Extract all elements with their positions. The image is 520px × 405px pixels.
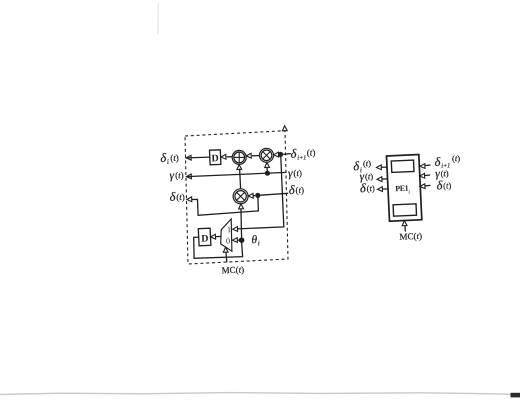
svg-text:δ(t): δ(t) [436,178,451,193]
arrowhead into M1 right [274,152,279,157]
wire node J3 branch to left delta output [189,198,258,215]
PE1 block box [387,155,422,222]
label delta_i(t) left output [160,150,179,166]
svg-text:δ(t): δ(t) [289,182,305,197]
wire M2 to adder [240,169,241,189]
wire theta node up to M2 [240,208,243,238]
label PE gamma(t) [359,170,373,183]
label delta_i+1(t) right input [290,146,315,162]
label delta(t) right input [289,182,305,197]
arrowhead gamma(t) at left border [186,174,191,179]
wire node J1 to right border delta_i+1 input [283,153,291,156]
wire PE left output delta [381,188,388,190]
arrowhead into D2 [211,234,216,239]
wire delta(t) right input rail [260,193,288,195]
wire multiplier M1 to adder [252,155,260,157]
arrowhead into M2 right [248,193,253,198]
output arrow at top-right corner of MC box [282,126,287,131]
wire border to delay D1 [186,156,210,159]
arrowhead delta(t) at left border [187,197,192,202]
arrowhead PE delta(t) input [420,184,425,189]
wire PE left output delta_i [380,166,388,168]
svg-text:δ(t): δ(t) [169,189,185,204]
label PE1_i [395,184,410,196]
wire M1 to node J1 [279,154,280,156]
label MC(t) under PE [399,231,422,242]
arrowhead PE gamma(t) input [420,173,425,178]
label delta(t) left output [169,189,185,204]
svg-text:PE1: PE1 [395,184,409,194]
arrowhead into D1 [221,154,226,159]
register R2 bottom rect [393,204,416,216]
adder U1 [232,150,246,164]
arrowhead PE gamma(t) output [377,177,382,182]
wire node J1 down to mux select-1 rail [238,157,284,229]
label PE delta_i(t) [353,158,372,174]
arrowhead into M2 bottom [239,204,244,209]
multiplier M2 [233,189,248,204]
arrowhead into M1 bottom [265,163,270,168]
svg-text:D: D [201,233,209,244]
wire D2 feedback loop to theta node [194,237,243,258]
wire MC(t) into PE bottom [404,225,406,232]
node J3 delta junction [255,193,260,198]
delay D2 box [198,228,211,246]
arrowhead into mux input 0 [232,238,237,243]
svg-text:0: 0 [226,236,230,245]
wire node J3 to M2 [252,195,256,197]
arrowhead MC(t) into PE [402,221,407,226]
wire MC(t) select from below border [225,251,228,262]
delay D1 box [210,150,221,165]
wire node J2 up to M1 [266,167,268,174]
wire adder to D1 [227,156,233,158]
arrowhead PE delta_i(t) output [376,165,381,170]
label gamma(t) left output [169,169,184,182]
arrowhead select into mux bottom [223,247,228,252]
wire gamma rail across [186,172,286,176]
label PE delta(t) [360,181,375,196]
label theta_i [251,234,260,248]
svg-text:1: 1 [227,225,231,234]
multiplexer MUX1 [221,219,232,251]
wire mux output to delay D2 [211,235,221,238]
svg-text:D: D [211,153,219,164]
label PE delta(t) right [436,178,451,193]
arrowhead delta_i(t) at left border [186,155,191,160]
arrowhead into adder bottom [237,165,242,170]
node J1 delta_i+1 junction [278,152,283,157]
svg-text:MC(t): MC(t) [399,231,422,242]
svg-text:MC(t): MC(t) [221,264,244,275]
wire theta node to mux input 0 [237,239,239,241]
arrowhead PE delta(t) output [378,187,383,192]
wire PE right input delta_i+1 [420,165,430,166]
label PE delta_i+1(t) [434,153,460,170]
wire PE right input delta [420,184,430,187]
dashed boundary box MC(t) [185,131,288,264]
wire PE right input gamma [420,175,430,176]
label gamma(t) right input [288,167,302,180]
arrowhead PE delta_i+1(t) input [420,164,425,169]
register R1 top rect [391,160,414,172]
node theta_i [239,237,245,243]
arrowhead into mux input 1 [233,227,238,232]
label PE gamma(t) right [435,168,449,181]
node J2 gamma junction [265,171,270,176]
label MC(t) under dashed box [221,264,244,275]
multiplier M1 [260,148,274,162]
wire PE left output gamma [381,178,389,180]
arrowhead into adder right [246,153,251,158]
svg-text:δ(t): δ(t) [360,181,375,196]
